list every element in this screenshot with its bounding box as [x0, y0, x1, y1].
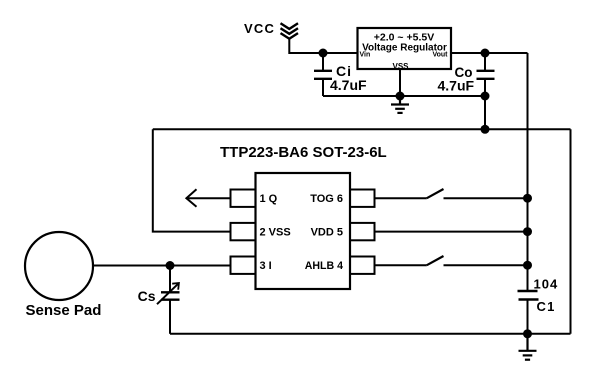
capacitor Ci [314, 53, 332, 96]
svg-text:4.7uF: 4.7uF [330, 77, 367, 93]
junction: VSS / ground rail [396, 92, 405, 101]
wire: switch to VDD rail (AHLB) [444, 264, 528, 266]
switch S1 (TOG option, open) [427, 189, 444, 198]
svg-text:Vin: Vin [360, 51, 371, 58]
junction: Vout / Co node [481, 49, 490, 58]
voltage regulator U2 box [358, 28, 452, 69]
wire: Q output arrow [186, 189, 230, 207]
junction: sense line / Cs [166, 261, 175, 270]
svg-text:Vout: Vout [432, 51, 448, 58]
pin 3 I box [231, 257, 256, 274]
capacitor Co [477, 53, 495, 96]
svg-text:VDD 5: VDD 5 [311, 227, 343, 239]
wire: ground loop top [153, 128, 571, 130]
junction: TOG switch / VDD rail [523, 194, 532, 203]
svg-text:4.7uF: 4.7uF [438, 78, 475, 94]
svg-text:AHLB 4: AHLB 4 [305, 260, 343, 272]
junction: C1 / bottom ground [523, 329, 532, 338]
wire: Co bottom down to ground loop [484, 96, 486, 129]
svg-text:104: 104 [534, 277, 559, 292]
IC U1 body [256, 173, 351, 289]
svg-text:2 VSS: 2 VSS [260, 227, 291, 239]
wire: VDD rail vertical [527, 53, 529, 291]
svg-text:Cs: Cs [138, 288, 156, 304]
svg-text:TTP223-BA6 SOT-23-6L: TTP223-BA6 SOT-23-6L [220, 144, 387, 161]
svg-text:TOG 6: TOG 6 [310, 193, 343, 205]
junction: VDD pin / VDD rail [523, 227, 532, 236]
svg-text:1 Q: 1 Q [260, 193, 278, 205]
junction: VCC / Ci node [319, 49, 328, 58]
junction: AHLB switch / VDD rail [523, 261, 532, 270]
wire: switch to VDD rail (TOG) [444, 197, 528, 199]
svg-text:Sense Pad: Sense Pad [26, 302, 102, 319]
wire: AHLB pin to switch [375, 264, 427, 266]
capacitor C1 [518, 291, 539, 334]
wire: ground loop right [570, 129, 572, 333]
pin 1 Q box [231, 190, 256, 207]
ground symbol (bottom) [519, 334, 537, 360]
wire: ground loop left to pin 2 VSS [153, 129, 231, 231]
wire: sense pad to pin 3 I [93, 265, 231, 267]
wire: ground rail Ci-VSS-Co [323, 95, 485, 97]
svg-text:C1: C1 [537, 299, 556, 314]
ground symbol (regulator VSS) [391, 96, 409, 113]
wire: bottom ground wire [170, 333, 571, 335]
pin 5 VDD box [350, 223, 375, 240]
pin 6 TOG box [350, 190, 375, 207]
switch S2 (AHLB option, open) [427, 256, 444, 265]
wire: regulator VSS down to ground [399, 69, 401, 96]
wire: VCC lead to regulator Vin [289, 38, 357, 54]
pin 2 VSS box [231, 223, 256, 240]
wire: TOG pin to switch [375, 197, 427, 199]
svg-text:VCC: VCC [244, 21, 275, 36]
power symbol VCC (triple chevron) [281, 23, 299, 38]
junction: ground rail / ground loop [481, 125, 490, 134]
capacitor Cs (variable, sense) [157, 266, 180, 334]
pin 4 AHLB box [350, 257, 375, 274]
svg-text:3 I: 3 I [260, 260, 272, 272]
wire: regulator Vout to VDD rail [451, 52, 528, 54]
junction: Co bottom / ground rail [481, 92, 490, 101]
wire: VDD pin to VDD rail [375, 231, 528, 233]
sense pad electrode [25, 232, 93, 300]
